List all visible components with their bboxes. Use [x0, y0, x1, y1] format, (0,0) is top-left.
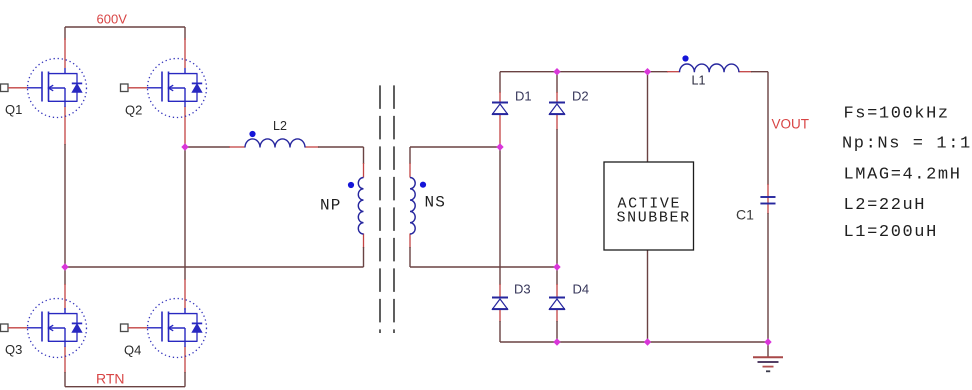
- ground: [753, 342, 783, 371]
- svg-text:C1: C1: [736, 207, 754, 223]
- svg-text:600V: 600V: [97, 12, 128, 27]
- L2 phase dot: [249, 131, 255, 137]
- wire NS top pin: [409, 147, 411, 164]
- wire NS bottom to D2/D4 column: [410, 266, 557, 268]
- wire NS top to D1 column: [410, 146, 500, 148]
- svg-text:D3: D3: [514, 282, 531, 297]
- svg-text:L1: L1: [692, 74, 706, 88]
- wire Q3 source to RTN: [64, 346, 66, 373]
- svg-text:SNUBBER: SNUBBER: [617, 210, 691, 227]
- wire Q1 source to node A: [64, 106, 66, 145]
- transistor Q1: [1, 59, 87, 118]
- junction bottom rail/snubber junction: [644, 338, 651, 345]
- wire RTN rail: [65, 386, 185, 388]
- junction NS-top/D1 junction: [496, 143, 503, 150]
- wire rectifier top rail: [500, 71, 668, 73]
- svg-text:D4: D4: [573, 282, 590, 297]
- wire L1 to output corner: [739, 71, 752, 73]
- wire C1 to bottom rail: [767, 203, 769, 214]
- svg-text:Q1: Q1: [5, 102, 22, 117]
- junction top rail/D2 junction: [553, 68, 560, 75]
- wire snubber top: [647, 72, 649, 162]
- parameters text block: [842, 105, 972, 243]
- svg-text:Q4: Q4: [124, 343, 141, 358]
- junction top rail/snubber junction: [644, 68, 651, 75]
- wire Q2 drain drop: [184, 27, 186, 40]
- inductor L2: [245, 139, 305, 148]
- junction node A: [61, 263, 68, 270]
- NP phase dot: [348, 182, 354, 188]
- svg-text:Fs=100kHz: Fs=100kHz: [844, 105, 950, 124]
- wire output column to C1: [767, 72, 769, 185]
- wire node B to L2: [185, 146, 230, 148]
- wire NP bottom to node A: [65, 266, 364, 268]
- svg-text:D2: D2: [572, 89, 589, 104]
- wire rectifier bottom rail: [500, 341, 768, 343]
- diode D1: [492, 103, 508, 115]
- inductor L1: [680, 64, 739, 72]
- wire D2 column: [556, 72, 558, 93]
- svg-text:L2=22uH: L2=22uH: [844, 196, 927, 215]
- svg-text:LMAG=4.2mH: LMAG=4.2mH: [844, 166, 962, 185]
- svg-text:Q2: Q2: [125, 103, 142, 118]
- wire NS bottom pin: [409, 234, 411, 249]
- wire Q4 source to RTN: [184, 346, 186, 373]
- transistor Q2: [121, 59, 207, 118]
- wire D1 column: [499, 72, 501, 93]
- junction NS-bottom/D2-D4 junction: [553, 263, 560, 270]
- wire Q1 drain drop: [64, 27, 66, 40]
- winding NS: [410, 178, 415, 235]
- svg-text:D1: D1: [515, 89, 532, 104]
- diode D4: [549, 298, 565, 310]
- svg-text:Q3: Q3: [5, 342, 22, 357]
- junction bottom rail/D4 junction: [553, 338, 560, 345]
- winding NP: [358, 178, 363, 235]
- svg-text:VOUT: VOUT: [772, 117, 810, 132]
- svg-text:Np:Ns = 1:1: Np:Ns = 1:1: [842, 135, 972, 154]
- svg-text:L2: L2: [273, 119, 287, 133]
- wire NP bottom pin: [363, 234, 365, 249]
- junction output/ground junction: [764, 338, 771, 345]
- wire NP top pin: [363, 147, 365, 164]
- diode D3: [492, 298, 508, 310]
- NS phase dot: [420, 182, 426, 188]
- wire node A to Q3 drain: [64, 267, 66, 285]
- diode D2: [549, 103, 565, 115]
- svg-text:L1=200uH: L1=200uH: [844, 223, 938, 242]
- junction node B: [181, 143, 188, 150]
- wire 600V top rail: [65, 26, 185, 28]
- capacitor C1: [760, 196, 775, 198]
- svg-text:NP: NP: [320, 197, 342, 215]
- svg-text:NS: NS: [425, 194, 447, 212]
- wire snubber bottom: [647, 250, 649, 342]
- wire Q2 source to node B: [184, 106, 186, 147]
- active snubber block U1: [604, 162, 694, 250]
- wire node B to Q4 drain: [184, 147, 186, 280]
- svg-text:RTN: RTN: [96, 371, 125, 387]
- L1 phase dot: [682, 55, 688, 61]
- wire L2 to NP top: [305, 146, 319, 148]
- transformer core dashed lines: [379, 85, 381, 333]
- transistor Q3: [1, 299, 87, 358]
- transistor Q4: [121, 299, 207, 358]
